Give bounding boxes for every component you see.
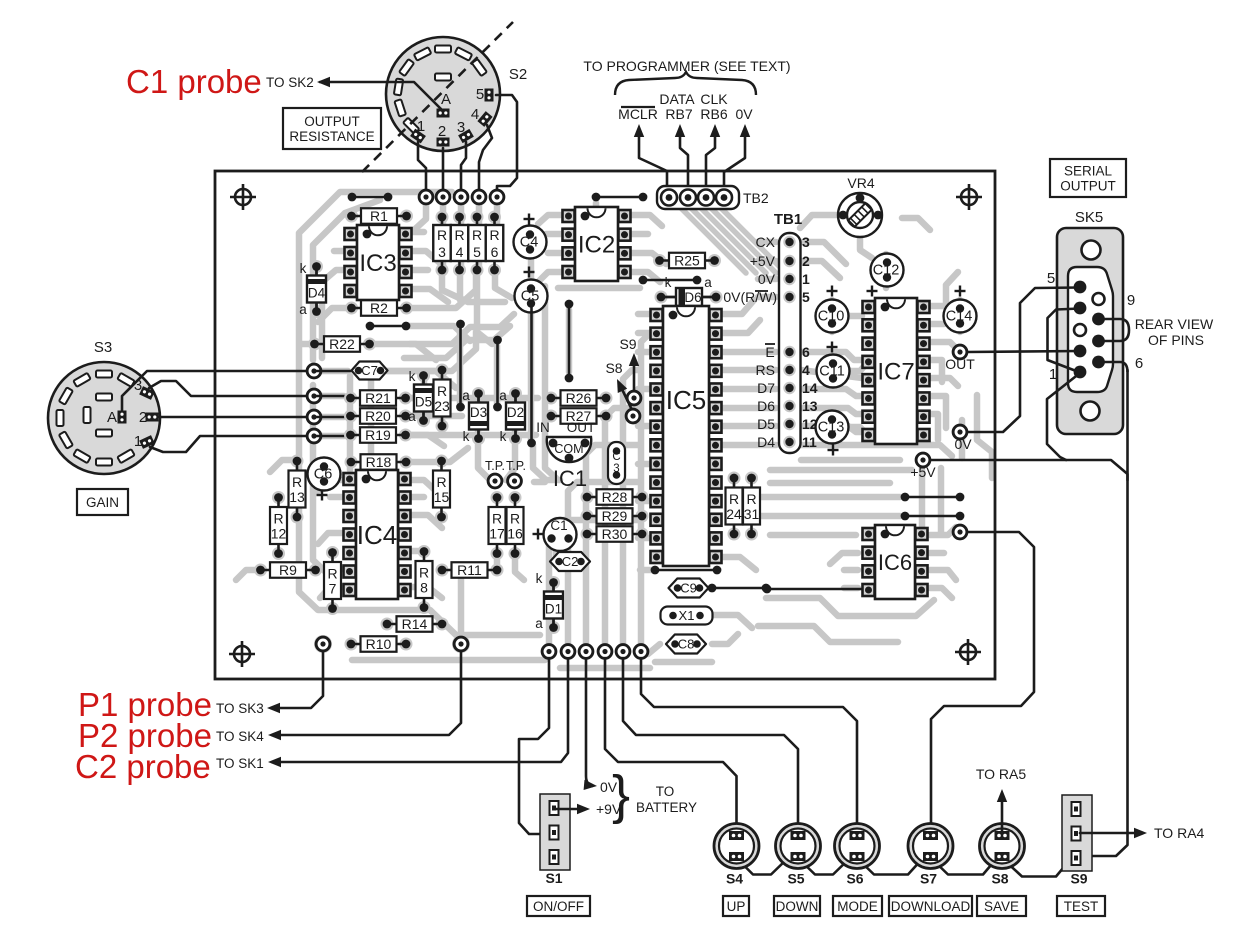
fiducial bottom-right <box>955 639 981 665</box>
resistor R27 <box>545 410 558 423</box>
svg-text:R: R <box>273 511 283 527</box>
svg-text:C9: C9 <box>680 581 697 596</box>
wire P2 probe <box>272 651 461 735</box>
svg-text:OUT: OUT <box>945 356 975 372</box>
svg-text:R: R <box>327 566 337 582</box>
label box MODE <box>833 896 882 916</box>
svg-text:0V: 0V <box>954 436 972 452</box>
label box DOWNLOAD <box>889 896 972 916</box>
resistor R31 <box>745 472 758 485</box>
svg-text:D4: D4 <box>308 286 326 301</box>
wire +5V long <box>930 460 1128 856</box>
wire C2 probe <box>272 651 568 762</box>
wire pad5 to S5 <box>623 658 798 832</box>
svg-text:E: E <box>765 344 774 360</box>
svg-text:DATA: DATA <box>659 91 695 107</box>
resistor R30 <box>581 528 594 541</box>
svg-text:IC4: IC4 <box>357 520 397 550</box>
svg-text:C1 probe: C1 probe <box>126 63 262 100</box>
svg-text:a: a <box>299 302 307 317</box>
svg-text:S9: S9 <box>1070 871 1087 887</box>
svg-text:3: 3 <box>438 244 446 260</box>
connector TB2 <box>657 186 739 209</box>
wire to IC6 pin4 <box>767 588 861 591</box>
board pad +5V <box>915 452 931 468</box>
wire pad4 to S4 <box>605 658 737 832</box>
svg-text:R18: R18 <box>366 454 392 470</box>
svg-text:C14: C14 <box>946 309 973 325</box>
svg-text:12: 12 <box>271 526 287 542</box>
svg-text:5: 5 <box>802 289 810 305</box>
svg-text:3: 3 <box>457 119 465 136</box>
svg-text:OUT: OUT <box>567 420 596 435</box>
svg-text:5: 5 <box>476 86 484 103</box>
wire S2 pad2 <box>442 148 445 190</box>
diode D5 <box>417 369 430 382</box>
wire S8 arrow <box>620 385 633 412</box>
resistor R23 <box>436 364 449 377</box>
svg-text:R19: R19 <box>365 427 391 443</box>
svg-text:k: k <box>500 429 507 444</box>
svg-text:IC7: IC7 <box>877 359 914 386</box>
svg-text:9: 9 <box>1127 292 1135 309</box>
svg-text:2: 2 <box>438 123 446 140</box>
diode D3 <box>472 387 485 400</box>
wire TO RA4 <box>1080 832 1140 835</box>
svg-text:RS: RS <box>756 362 775 378</box>
vertical wire IC2 to R26 <box>568 304 571 378</box>
svg-text:R: R <box>492 511 502 527</box>
svg-text:IC5: IC5 <box>666 385 706 415</box>
resistor R1 <box>345 210 358 223</box>
board pad B5 <box>615 644 631 660</box>
trimmer VR4 <box>838 193 882 237</box>
svg-text:31: 31 <box>744 506 760 522</box>
svg-text:C2 probe: C2 probe <box>75 748 211 785</box>
svg-text:+5V: +5V <box>910 464 936 480</box>
svg-text:6: 6 <box>1135 355 1143 372</box>
pushbutton S6 <box>835 824 880 869</box>
wire left of TB2 <box>596 196 643 199</box>
wire right1 <box>905 496 960 499</box>
board pad S3-2 <box>306 388 322 404</box>
svg-text:SERIAL: SERIAL <box>1064 163 1113 178</box>
label C10 plus <box>827 290 838 292</box>
svg-text:R20: R20 <box>365 408 391 424</box>
board pad S2-5 <box>489 189 505 205</box>
capacitor C2 <box>550 552 590 571</box>
svg-text:a: a <box>462 388 470 403</box>
switch S9 <box>1062 795 1092 871</box>
svg-text:BATTERY: BATTERY <box>636 800 697 815</box>
pcb copper traces <box>236 192 992 668</box>
resistor R19 <box>344 429 357 442</box>
board pad S8 arrow <box>625 408 641 424</box>
capacitor C7 <box>352 362 388 380</box>
board pad B4 <box>597 644 613 660</box>
svg-text:DOWN: DOWN <box>776 899 819 914</box>
resistor R29 <box>581 510 594 523</box>
resistor R18 <box>345 456 358 469</box>
wire SK5 pin6 down <box>1099 362 1128 372</box>
svg-text:0V: 0V <box>758 271 776 287</box>
svg-text:C8: C8 <box>678 637 695 652</box>
resistor R28 <box>581 491 594 504</box>
label C12 plus <box>867 290 878 292</box>
IC U-IC2 <box>563 210 575 222</box>
svg-text:D1: D1 <box>545 602 562 617</box>
svg-text:1: 1 <box>134 433 142 450</box>
capacitor C12 <box>871 254 904 287</box>
svg-text:R25: R25 <box>674 253 700 269</box>
svg-text:k: k <box>300 261 307 276</box>
diode D4 <box>310 260 323 273</box>
svg-text:VR4: VR4 <box>847 175 874 191</box>
svg-text:IC1: IC1 <box>553 466 587 491</box>
svg-text:TO RA4: TO RA4 <box>1154 825 1205 841</box>
board pad S2-1 <box>418 189 434 205</box>
wire S2 pad5 <box>496 95 517 190</box>
svg-text:S8: S8 <box>991 871 1008 887</box>
label C6 plus <box>317 494 328 496</box>
resistor R20 <box>344 410 357 423</box>
wire pin6 vertical <box>1126 370 1129 480</box>
wire daisy chain <box>737 858 1077 877</box>
switch S1 <box>540 794 570 870</box>
board pad B3 <box>578 644 594 660</box>
svg-text:TO SK4: TO SK4 <box>216 729 264 744</box>
svg-text:17: 17 <box>489 526 505 542</box>
svg-text:C12: C12 <box>873 263 900 279</box>
label C11 plus <box>827 346 838 348</box>
svg-text:R2: R2 <box>370 300 388 316</box>
fiducial top-right <box>956 184 982 210</box>
svg-text:C10: C10 <box>818 309 845 325</box>
wire pad1 to S1 <box>519 658 549 834</box>
svg-text:R: R <box>292 474 302 490</box>
wire TO RA5 <box>1001 797 1004 832</box>
svg-text:C7: C7 <box>361 363 378 378</box>
svg-text:S6: S6 <box>846 871 863 887</box>
svg-text:23: 23 <box>434 398 450 414</box>
svg-text:8: 8 <box>420 580 428 596</box>
svg-text:R29: R29 <box>602 508 628 524</box>
svg-text:R22: R22 <box>329 336 355 352</box>
capacitor C8 <box>666 635 706 654</box>
resistor R2 <box>345 302 358 315</box>
wire top-left of IC3 <box>352 196 388 199</box>
svg-text:R30: R30 <box>602 526 628 542</box>
label box TEST <box>1057 896 1105 916</box>
board pad S2-2 <box>435 189 451 205</box>
label C1 plus <box>533 533 544 535</box>
svg-text:TB1: TB1 <box>774 211 802 228</box>
board pad S7wire <box>952 524 968 540</box>
rotary switch S2 <box>362 22 513 172</box>
board pad B2 <box>560 644 576 660</box>
svg-text:2: 2 <box>139 409 147 426</box>
svg-text:C2: C2 <box>562 554 579 569</box>
wire P1 probe <box>271 651 323 708</box>
svg-text:D6: D6 <box>757 398 775 414</box>
svg-text:A: A <box>107 409 117 426</box>
svg-text:5: 5 <box>1047 270 1055 287</box>
wire S9 arrow <box>633 360 636 394</box>
board pad S9 arrow <box>626 390 642 406</box>
svg-text:S7: S7 <box>920 871 937 887</box>
svg-text:C13: C13 <box>818 420 845 436</box>
resistor R16 <box>509 491 522 504</box>
resistor array R3 R4 R5 R6 <box>433 211 503 277</box>
wire pad6 to S6 <box>641 658 857 832</box>
resistor R21 <box>344 392 357 405</box>
board pad S2-4 <box>471 189 487 205</box>
svg-text:13: 13 <box>802 398 818 414</box>
resistor R13 <box>291 455 304 468</box>
brace programmer <box>615 72 756 95</box>
svg-text:TO SK3: TO SK3 <box>216 701 264 716</box>
svg-text:T.P.: T.P. <box>485 459 505 473</box>
svg-text:IC3: IC3 <box>359 250 396 277</box>
svg-text:IC2: IC2 <box>578 232 615 259</box>
wire S3 3 to pad <box>149 381 307 396</box>
board pad S3-1 <box>306 363 322 379</box>
svg-text:C11: C11 <box>819 364 845 380</box>
capacitor C9 <box>669 579 709 598</box>
wire below R25 <box>643 279 697 282</box>
transistor IC1 <box>547 437 591 462</box>
svg-text:R1: R1 <box>370 208 388 224</box>
wire pad to R19 <box>314 435 345 438</box>
svg-text:D5: D5 <box>415 395 432 410</box>
wire SK5 pin4 loop <box>1048 309 1081 373</box>
wire SK5 pin8-7 link <box>1099 319 1130 341</box>
svg-text:OUTPUT: OUTPUT <box>1060 178 1116 193</box>
svg-text:k: k <box>665 275 672 290</box>
svg-text:DOWNLOAD: DOWNLOAD <box>891 899 971 914</box>
svg-text:D5: D5 <box>757 416 775 432</box>
svg-text:C: C <box>612 451 620 463</box>
svg-text:4: 4 <box>471 106 479 123</box>
wire C9 right <box>712 587 766 590</box>
capacitor C13 <box>816 411 849 444</box>
label C5 plus <box>524 271 535 273</box>
wire 0V to SK5 pin5 <box>967 288 1080 433</box>
capacitor C1 <box>544 518 577 551</box>
capacitor C5 <box>515 280 548 313</box>
IC U-IC7 <box>863 301 875 313</box>
svg-text:k: k <box>409 369 416 384</box>
svg-text:MODE: MODE <box>837 899 878 914</box>
svg-text:+5V: +5V <box>750 253 776 269</box>
svg-text:k: k <box>536 571 543 586</box>
svg-text:S3: S3 <box>94 339 112 356</box>
svg-text:D7: D7 <box>757 380 775 396</box>
wire below IC5 <box>655 569 717 572</box>
svg-text:X1: X1 <box>679 608 695 623</box>
svg-text:R: R <box>746 491 756 507</box>
wire pad to C7 <box>314 370 352 373</box>
wire RB7 arrow <box>680 133 688 194</box>
svg-text:S2: S2 <box>509 66 527 83</box>
svg-text:4: 4 <box>456 244 464 260</box>
capacitor C3 <box>608 442 625 484</box>
svg-text:RB7: RB7 <box>665 106 692 122</box>
wire S3 A to pad <box>122 371 307 410</box>
svg-text:C6: C6 <box>314 467 333 483</box>
wire pad to R20 <box>314 416 345 419</box>
resistor R9 <box>254 564 267 577</box>
label C13 plus <box>828 449 839 451</box>
svg-text:2: 2 <box>802 253 810 269</box>
svg-text:0V: 0V <box>735 106 753 122</box>
svg-text:0V(R/W): 0V(R/W) <box>723 289 777 305</box>
svg-text:R26: R26 <box>566 390 592 406</box>
svg-text:6: 6 <box>802 344 810 360</box>
svg-text:R: R <box>419 565 429 581</box>
svg-text:R: R <box>437 227 447 243</box>
wire vert x461 <box>459 324 462 407</box>
capacitor C14 <box>944 300 977 333</box>
board pad B1 <box>541 644 557 660</box>
board pad S3-3 <box>306 409 322 425</box>
board pad OUT <box>952 344 968 360</box>
fiducial bottom-left <box>229 641 255 667</box>
svg-text:UP: UP <box>727 899 746 914</box>
wire right2 <box>905 515 960 518</box>
resistor R14 <box>381 618 394 631</box>
wire 0V arrow <box>724 133 745 194</box>
svg-text:SAVE: SAVE <box>984 899 1019 914</box>
svg-text:S5: S5 <box>787 871 804 887</box>
wire S2 pad3 <box>461 142 466 190</box>
svg-text:R: R <box>472 227 482 243</box>
resistor R8 <box>418 545 431 558</box>
resistor R11 <box>436 564 449 577</box>
board pad P1 <box>314 635 332 653</box>
svg-text:5: 5 <box>473 244 481 260</box>
connector SK5 <box>1057 228 1123 434</box>
svg-text:15: 15 <box>434 489 450 505</box>
svg-text:k: k <box>463 429 470 444</box>
wire S3 2 to pad <box>158 416 307 419</box>
svg-text:R: R <box>436 474 446 490</box>
board pad P2 <box>452 635 470 653</box>
wire pad to R21 <box>314 395 345 398</box>
pushbutton S7 <box>908 824 953 869</box>
IC U-IC3 <box>345 228 357 240</box>
svg-text:a: a <box>535 616 543 631</box>
IC U-IC4 <box>344 473 356 485</box>
label box SERIAL OUTPUT <box>1050 159 1126 197</box>
svg-text:T.P.: T.P. <box>506 459 526 473</box>
svg-text:11: 11 <box>802 434 817 450</box>
svg-text:R: R <box>489 227 499 243</box>
wire S3 1 to pad <box>150 436 307 452</box>
svg-text:TO SK2: TO SK2 <box>266 75 314 90</box>
svg-text:RESISTANCE: RESISTANCE <box>289 129 374 144</box>
svg-text:4: 4 <box>802 362 810 378</box>
svg-text:16: 16 <box>507 526 523 542</box>
svg-text:OF PINS: OF PINS <box>1148 332 1204 348</box>
diode D6 <box>655 288 723 306</box>
capacitor C4 <box>514 226 547 259</box>
wire +9V arrow <box>556 808 584 811</box>
crystal X1 <box>661 607 713 625</box>
svg-text:TEST: TEST <box>1064 899 1099 914</box>
svg-text:OUTPUT: OUTPUT <box>304 114 360 129</box>
svg-text:TO SK1: TO SK1 <box>216 756 264 771</box>
svg-text:R: R <box>454 227 464 243</box>
svg-text:14: 14 <box>802 380 818 396</box>
resistor R17 <box>491 491 504 504</box>
board pad S3-4 <box>306 428 322 444</box>
wire SK5 pin1 down <box>1047 373 1080 460</box>
resistor R22 <box>308 338 321 351</box>
svg-text:A: A <box>441 91 451 108</box>
svg-text:D3: D3 <box>470 405 487 420</box>
svg-text:R10: R10 <box>366 636 392 652</box>
wire below R2 <box>370 325 406 328</box>
wire pad3 0V arrow <box>586 658 593 786</box>
IC U-IC6 <box>863 528 875 540</box>
svg-text:13: 13 <box>289 489 305 505</box>
board pad 0V right <box>952 424 968 440</box>
testpoint TP1 <box>487 473 503 489</box>
wire S7 long <box>931 532 1034 832</box>
svg-text:ON/OFF: ON/OFF <box>533 899 584 914</box>
svg-text:R14: R14 <box>402 616 428 632</box>
svg-text:S1: S1 <box>545 870 562 886</box>
wire OUT to SK5 pin2 <box>966 351 1080 352</box>
svg-text:C1: C1 <box>550 518 567 533</box>
svg-text:D4: D4 <box>757 434 775 450</box>
label box ON/OFF <box>527 896 590 916</box>
svg-text:S4: S4 <box>726 871 743 887</box>
label box GAIN <box>77 489 128 515</box>
label box OUTPUT RESISTANCE <box>283 108 381 149</box>
svg-text:IN: IN <box>536 420 550 435</box>
svg-text:R: R <box>437 383 447 399</box>
svg-text:R9: R9 <box>279 562 297 578</box>
resistor R26 <box>545 392 558 405</box>
label box DOWN <box>774 896 820 916</box>
connector TB1 <box>779 233 801 453</box>
svg-text:}: } <box>612 765 630 825</box>
wire RB6 arrow <box>706 133 715 194</box>
wire S2 pad4 <box>479 125 492 190</box>
svg-text:TB2: TB2 <box>743 190 769 206</box>
svg-text:TO RA5: TO RA5 <box>976 766 1027 782</box>
svg-text:C4: C4 <box>520 235 539 251</box>
label C4 plus <box>524 218 535 220</box>
svg-text:1: 1 <box>802 271 810 287</box>
svg-text:CLK: CLK <box>700 91 728 107</box>
svg-text:S9: S9 <box>619 336 636 352</box>
pushbutton S4 <box>714 824 759 869</box>
svg-text:IC6: IC6 <box>878 550 912 575</box>
svg-text:CX: CX <box>756 234 776 250</box>
svg-text:R: R <box>510 511 520 527</box>
svg-text:7: 7 <box>329 581 337 597</box>
wire S2 pad1 <box>418 142 426 190</box>
svg-text:24: 24 <box>726 506 742 522</box>
capacitor C11 <box>817 355 850 388</box>
rotary switch S3 <box>48 362 160 474</box>
wire MCLR arrow <box>639 133 667 194</box>
fiducial top-left <box>230 184 256 210</box>
resistor R10 <box>345 638 358 651</box>
